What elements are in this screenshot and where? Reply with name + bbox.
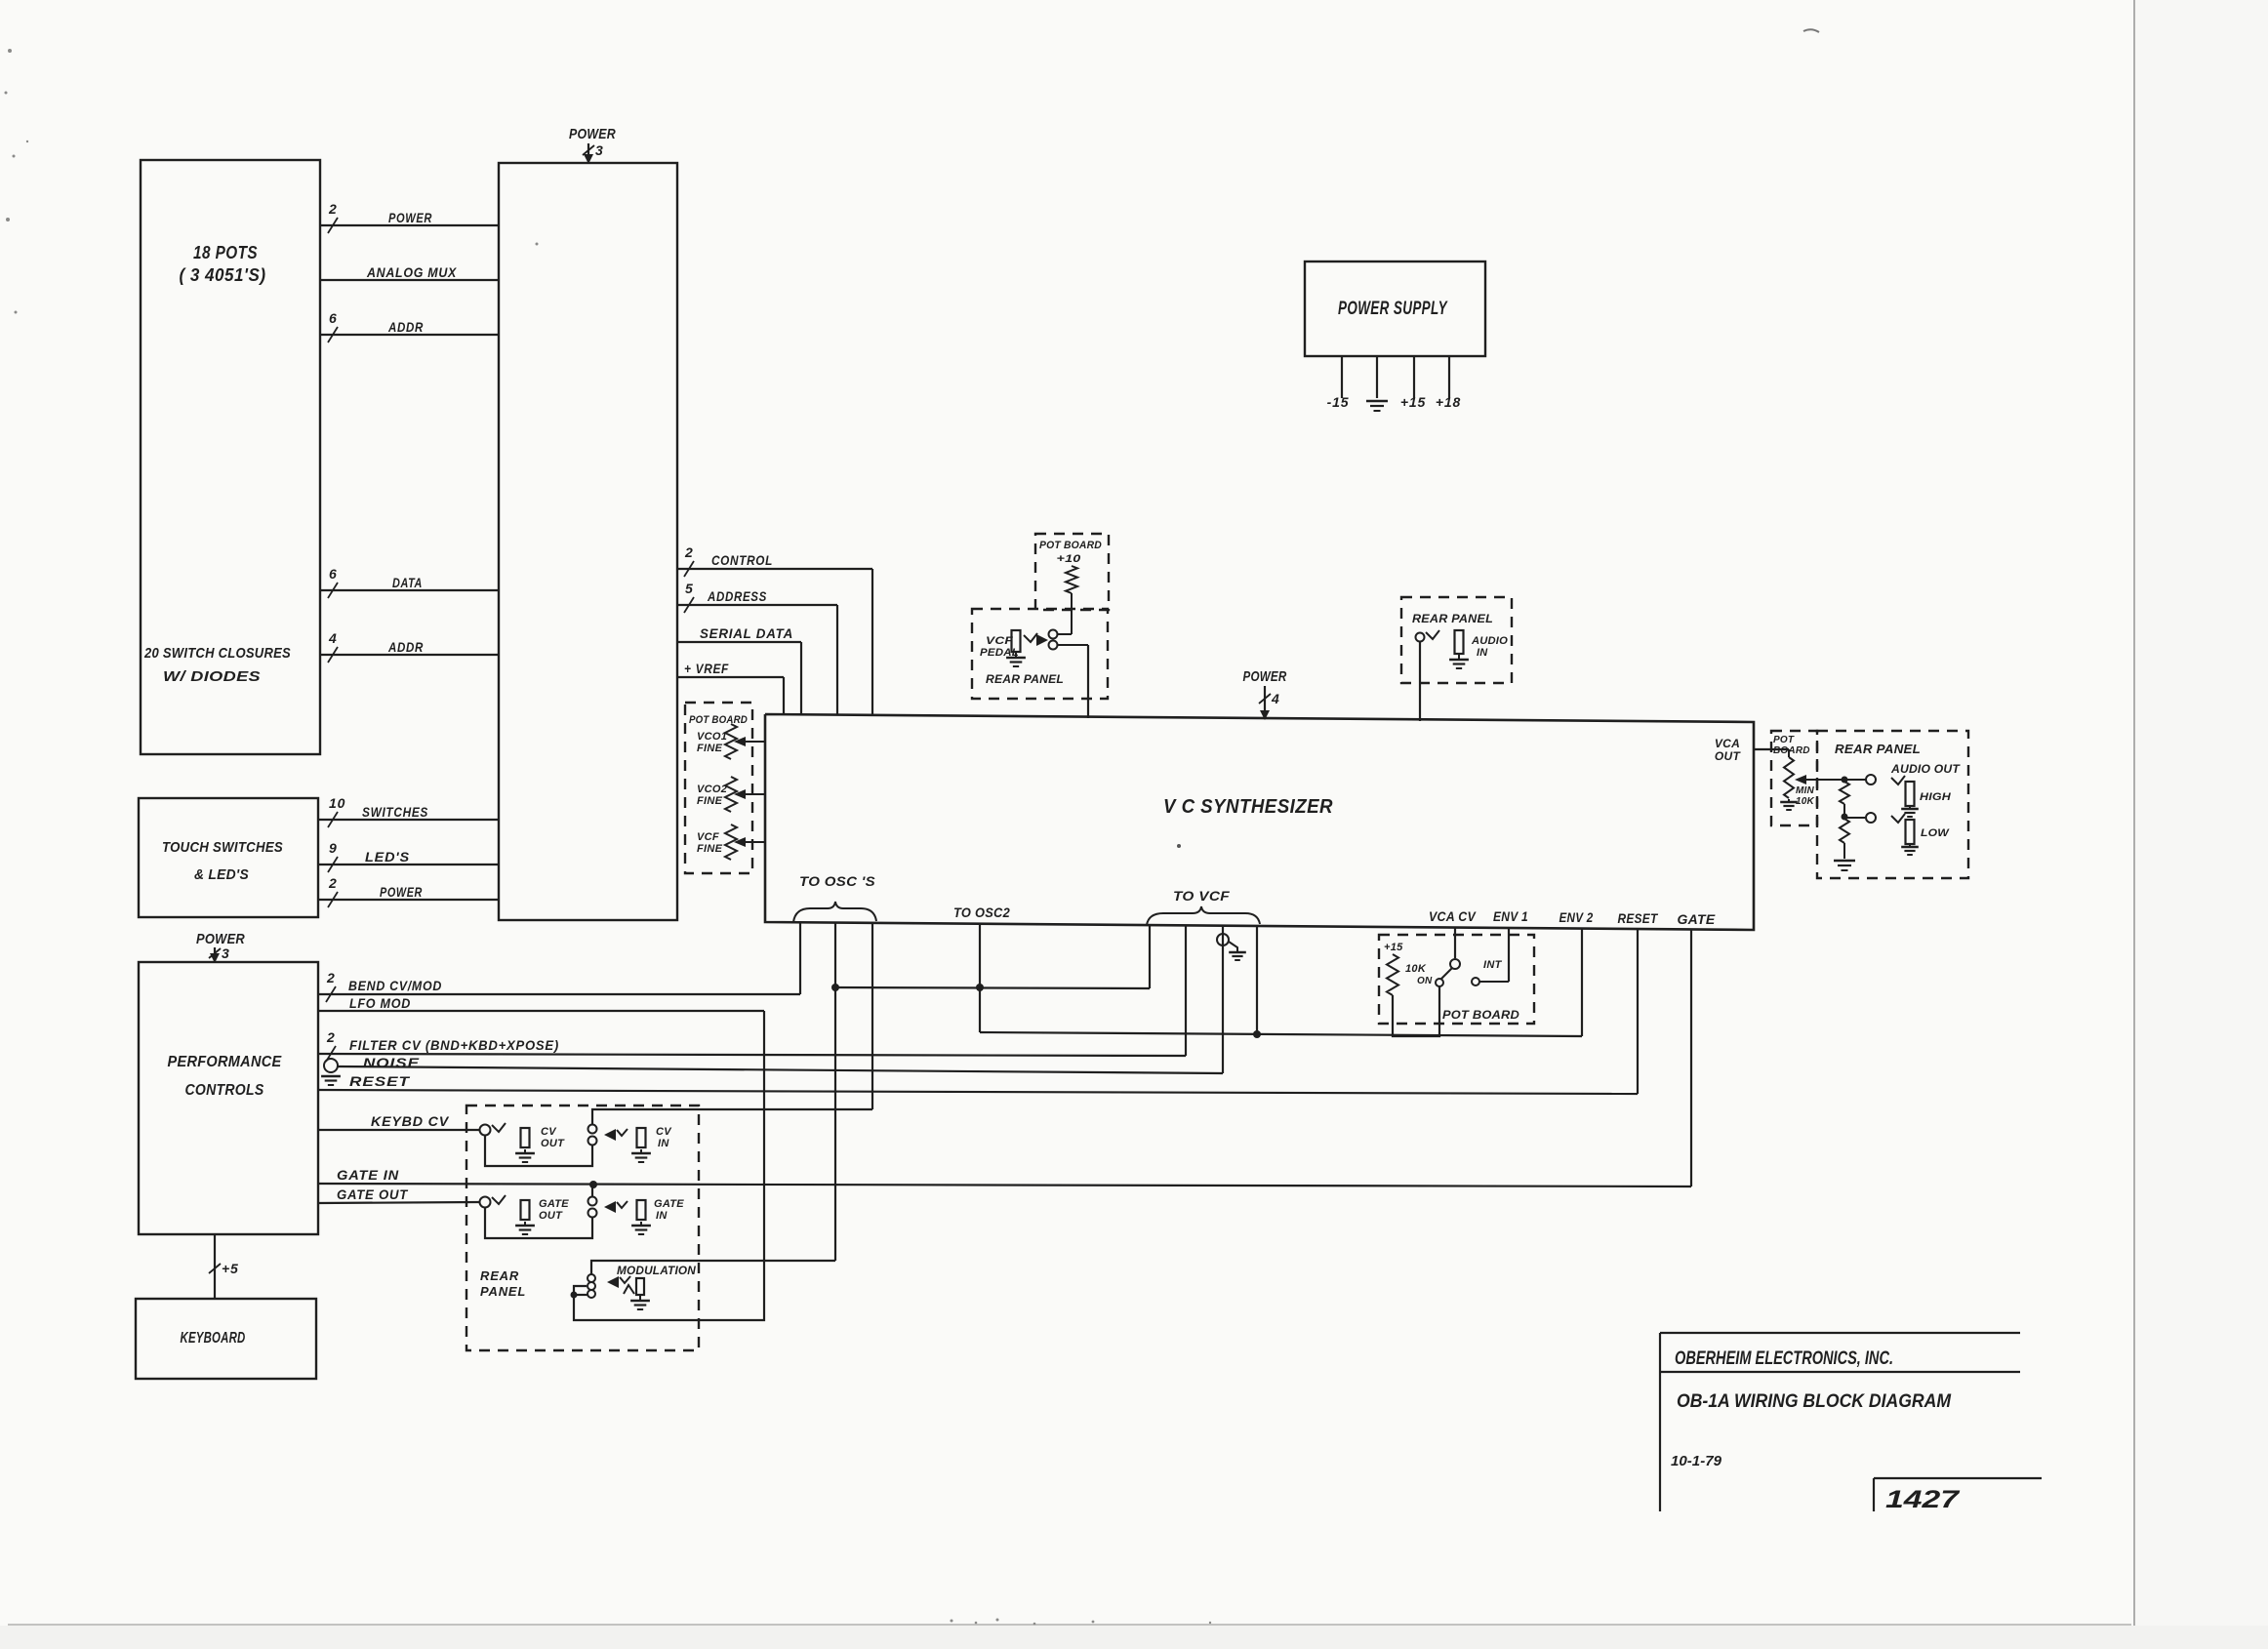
svg-text:10K: 10K	[1796, 796, 1815, 807]
svg-text:2: 2	[326, 1029, 336, 1045]
svg-text:6: 6	[329, 566, 338, 582]
svg-text:ON: ON	[1417, 976, 1433, 986]
svg-text:POWER: POWER	[196, 931, 245, 947]
svg-text:OUT: OUT	[541, 1138, 565, 1149]
svg-text:VCO1: VCO1	[697, 731, 727, 743]
svg-text:V C SYNTHESIZER: V C SYNTHESIZER	[1163, 796, 1333, 818]
svg-text:MODULATION: MODULATION	[617, 1264, 696, 1277]
svg-text:POWER: POWER	[569, 126, 616, 142]
svg-text:BEND CV/MOD: BEND CV/MOD	[348, 978, 442, 993]
svg-text:20 SWITCH CLOSURES: 20 SWITCH CLOSURES	[143, 645, 291, 662]
svg-text:& LED'S: & LED'S	[194, 866, 249, 883]
svg-text:SERIAL DATA: SERIAL DATA	[700, 625, 793, 641]
svg-text:+15: +15	[1400, 394, 1426, 410]
svg-text:INT: INT	[1483, 959, 1503, 971]
svg-text:18 POTS: 18 POTS	[193, 243, 258, 262]
svg-text:GATE: GATE	[654, 1198, 684, 1210]
svg-text:+ VREF: + VREF	[684, 661, 729, 676]
svg-text:POWER: POWER	[1243, 668, 1287, 685]
svg-text:REAR PANEL: REAR PANEL	[986, 672, 1064, 686]
svg-text:ADDRESS: ADDRESS	[707, 588, 767, 604]
svg-text:IN: IN	[656, 1210, 668, 1222]
svg-text:FINE: FINE	[697, 743, 723, 754]
svg-text:6: 6	[329, 310, 338, 326]
svg-text:( 3 4051'S): ( 3 4051'S)	[180, 265, 266, 285]
svg-text:REAR: REAR	[480, 1268, 519, 1283]
svg-text:IN: IN	[658, 1138, 669, 1149]
svg-text:CONTROLS: CONTROLS	[185, 1082, 264, 1099]
svg-text:VCO2: VCO2	[697, 784, 727, 795]
svg-text:1427: 1427	[1885, 1486, 1960, 1513]
svg-text:KEYBD CV: KEYBD CV	[371, 1113, 450, 1129]
svg-text:IN: IN	[1477, 647, 1488, 659]
svg-text:NOISE: NOISE	[363, 1055, 420, 1070]
svg-text:POT: POT	[1773, 735, 1795, 745]
svg-text:OUT: OUT	[1715, 749, 1742, 763]
svg-text:FILTER CV (BND+KBD+XPOSE): FILTER CV (BND+KBD+XPOSE)	[349, 1037, 559, 1053]
svg-text:REAR PANEL: REAR PANEL	[1835, 742, 1921, 756]
svg-text:5: 5	[685, 581, 694, 596]
svg-text:GATE IN: GATE IN	[337, 1167, 399, 1183]
svg-text:2: 2	[326, 970, 336, 985]
svg-text:FINE: FINE	[697, 795, 723, 807]
svg-text:PANEL: PANEL	[480, 1284, 526, 1299]
svg-text:2: 2	[684, 544, 694, 560]
svg-text:CV: CV	[656, 1126, 672, 1138]
svg-text:CONTROL: CONTROL	[711, 552, 773, 568]
svg-text:ANALOG MUX: ANALOG MUX	[366, 264, 458, 280]
svg-text:10K: 10K	[1405, 963, 1427, 975]
svg-text:POT BOARD: POT BOARD	[1039, 540, 1102, 551]
svg-text:ADDR: ADDR	[387, 639, 424, 655]
svg-text:4: 4	[328, 630, 338, 646]
svg-text:4: 4	[1271, 691, 1280, 706]
svg-text:HIGH: HIGH	[1920, 791, 1952, 803]
svg-text:+5: +5	[222, 1261, 239, 1276]
svg-text:VCF: VCF	[697, 831, 719, 843]
svg-text:VCA CV: VCA CV	[1429, 908, 1477, 924]
svg-text:+18: +18	[1436, 394, 1461, 410]
svg-text:3: 3	[595, 142, 604, 158]
svg-text:POWER: POWER	[380, 884, 423, 900]
svg-text:POWER SUPPLY: POWER SUPPLY	[1338, 299, 1448, 319]
svg-text:KEYBOARD: KEYBOARD	[181, 1330, 246, 1347]
svg-text:ENV 1: ENV 1	[1493, 908, 1528, 924]
svg-text:10: 10	[329, 795, 345, 811]
svg-text:SWITCHES: SWITCHES	[362, 804, 428, 820]
svg-text:2: 2	[328, 201, 338, 217]
svg-text:AUDIO OUT: AUDIO OUT	[1890, 762, 1961, 776]
svg-text:CV: CV	[541, 1126, 557, 1138]
svg-text:TOUCH SWITCHES: TOUCH SWITCHES	[162, 839, 283, 856]
svg-text:OBERHEIM ELECTRONICS, INC.: OBERHEIM ELECTRONICS, INC.	[1675, 1348, 1893, 1369]
svg-text:TO OSC2: TO OSC2	[953, 905, 1010, 920]
svg-text:POT BOARD: POT BOARD	[1442, 1008, 1519, 1022]
svg-text:TO VCF: TO VCF	[1173, 888, 1230, 904]
svg-text:RESET: RESET	[1618, 910, 1659, 926]
svg-text:2: 2	[328, 875, 338, 891]
svg-text:9: 9	[329, 840, 338, 856]
svg-text:RESET: RESET	[349, 1073, 411, 1089]
svg-text:3: 3	[222, 945, 230, 961]
svg-text:LOW: LOW	[1921, 827, 1951, 839]
svg-text:AUDIO: AUDIO	[1471, 635, 1508, 647]
svg-text:+10: +10	[1057, 553, 1082, 565]
svg-text:10-1-79: 10-1-79	[1671, 1453, 1722, 1469]
svg-text:VCA: VCA	[1715, 737, 1740, 750]
svg-text:W/ DIODES: W/ DIODES	[163, 668, 261, 685]
svg-text:PERFORMANCE: PERFORMANCE	[168, 1054, 282, 1070]
svg-text:BOARD: BOARD	[1773, 745, 1810, 756]
svg-text:VCF: VCF	[986, 635, 1013, 647]
svg-text:TO OSC 'S: TO OSC 'S	[799, 873, 875, 889]
svg-text:DATA: DATA	[392, 575, 423, 590]
svg-text:GATE OUT: GATE OUT	[337, 1186, 409, 1202]
svg-text:GATE: GATE	[1678, 911, 1716, 927]
svg-text:OUT: OUT	[539, 1210, 563, 1222]
svg-text:FINE: FINE	[697, 843, 723, 855]
svg-text:POT BOARD: POT BOARD	[689, 714, 748, 726]
svg-text:ENV 2: ENV 2	[1559, 909, 1594, 925]
svg-text:GATE: GATE	[539, 1198, 569, 1210]
svg-text:REAR PANEL: REAR PANEL	[1412, 612, 1493, 625]
svg-text:MIN: MIN	[1796, 785, 1815, 796]
svg-text:OB-1A WIRING BLOCK DIAGRAM: OB-1A WIRING BLOCK DIAGRAM	[1677, 1391, 1952, 1412]
svg-text:LFO MOD: LFO MOD	[349, 995, 411, 1011]
svg-text:POWER: POWER	[388, 210, 432, 225]
svg-text:-15: -15	[1327, 394, 1350, 410]
svg-text:ADDR: ADDR	[387, 319, 424, 335]
svg-text:+15: +15	[1384, 942, 1403, 953]
svg-text:LED'S: LED'S	[365, 849, 410, 865]
